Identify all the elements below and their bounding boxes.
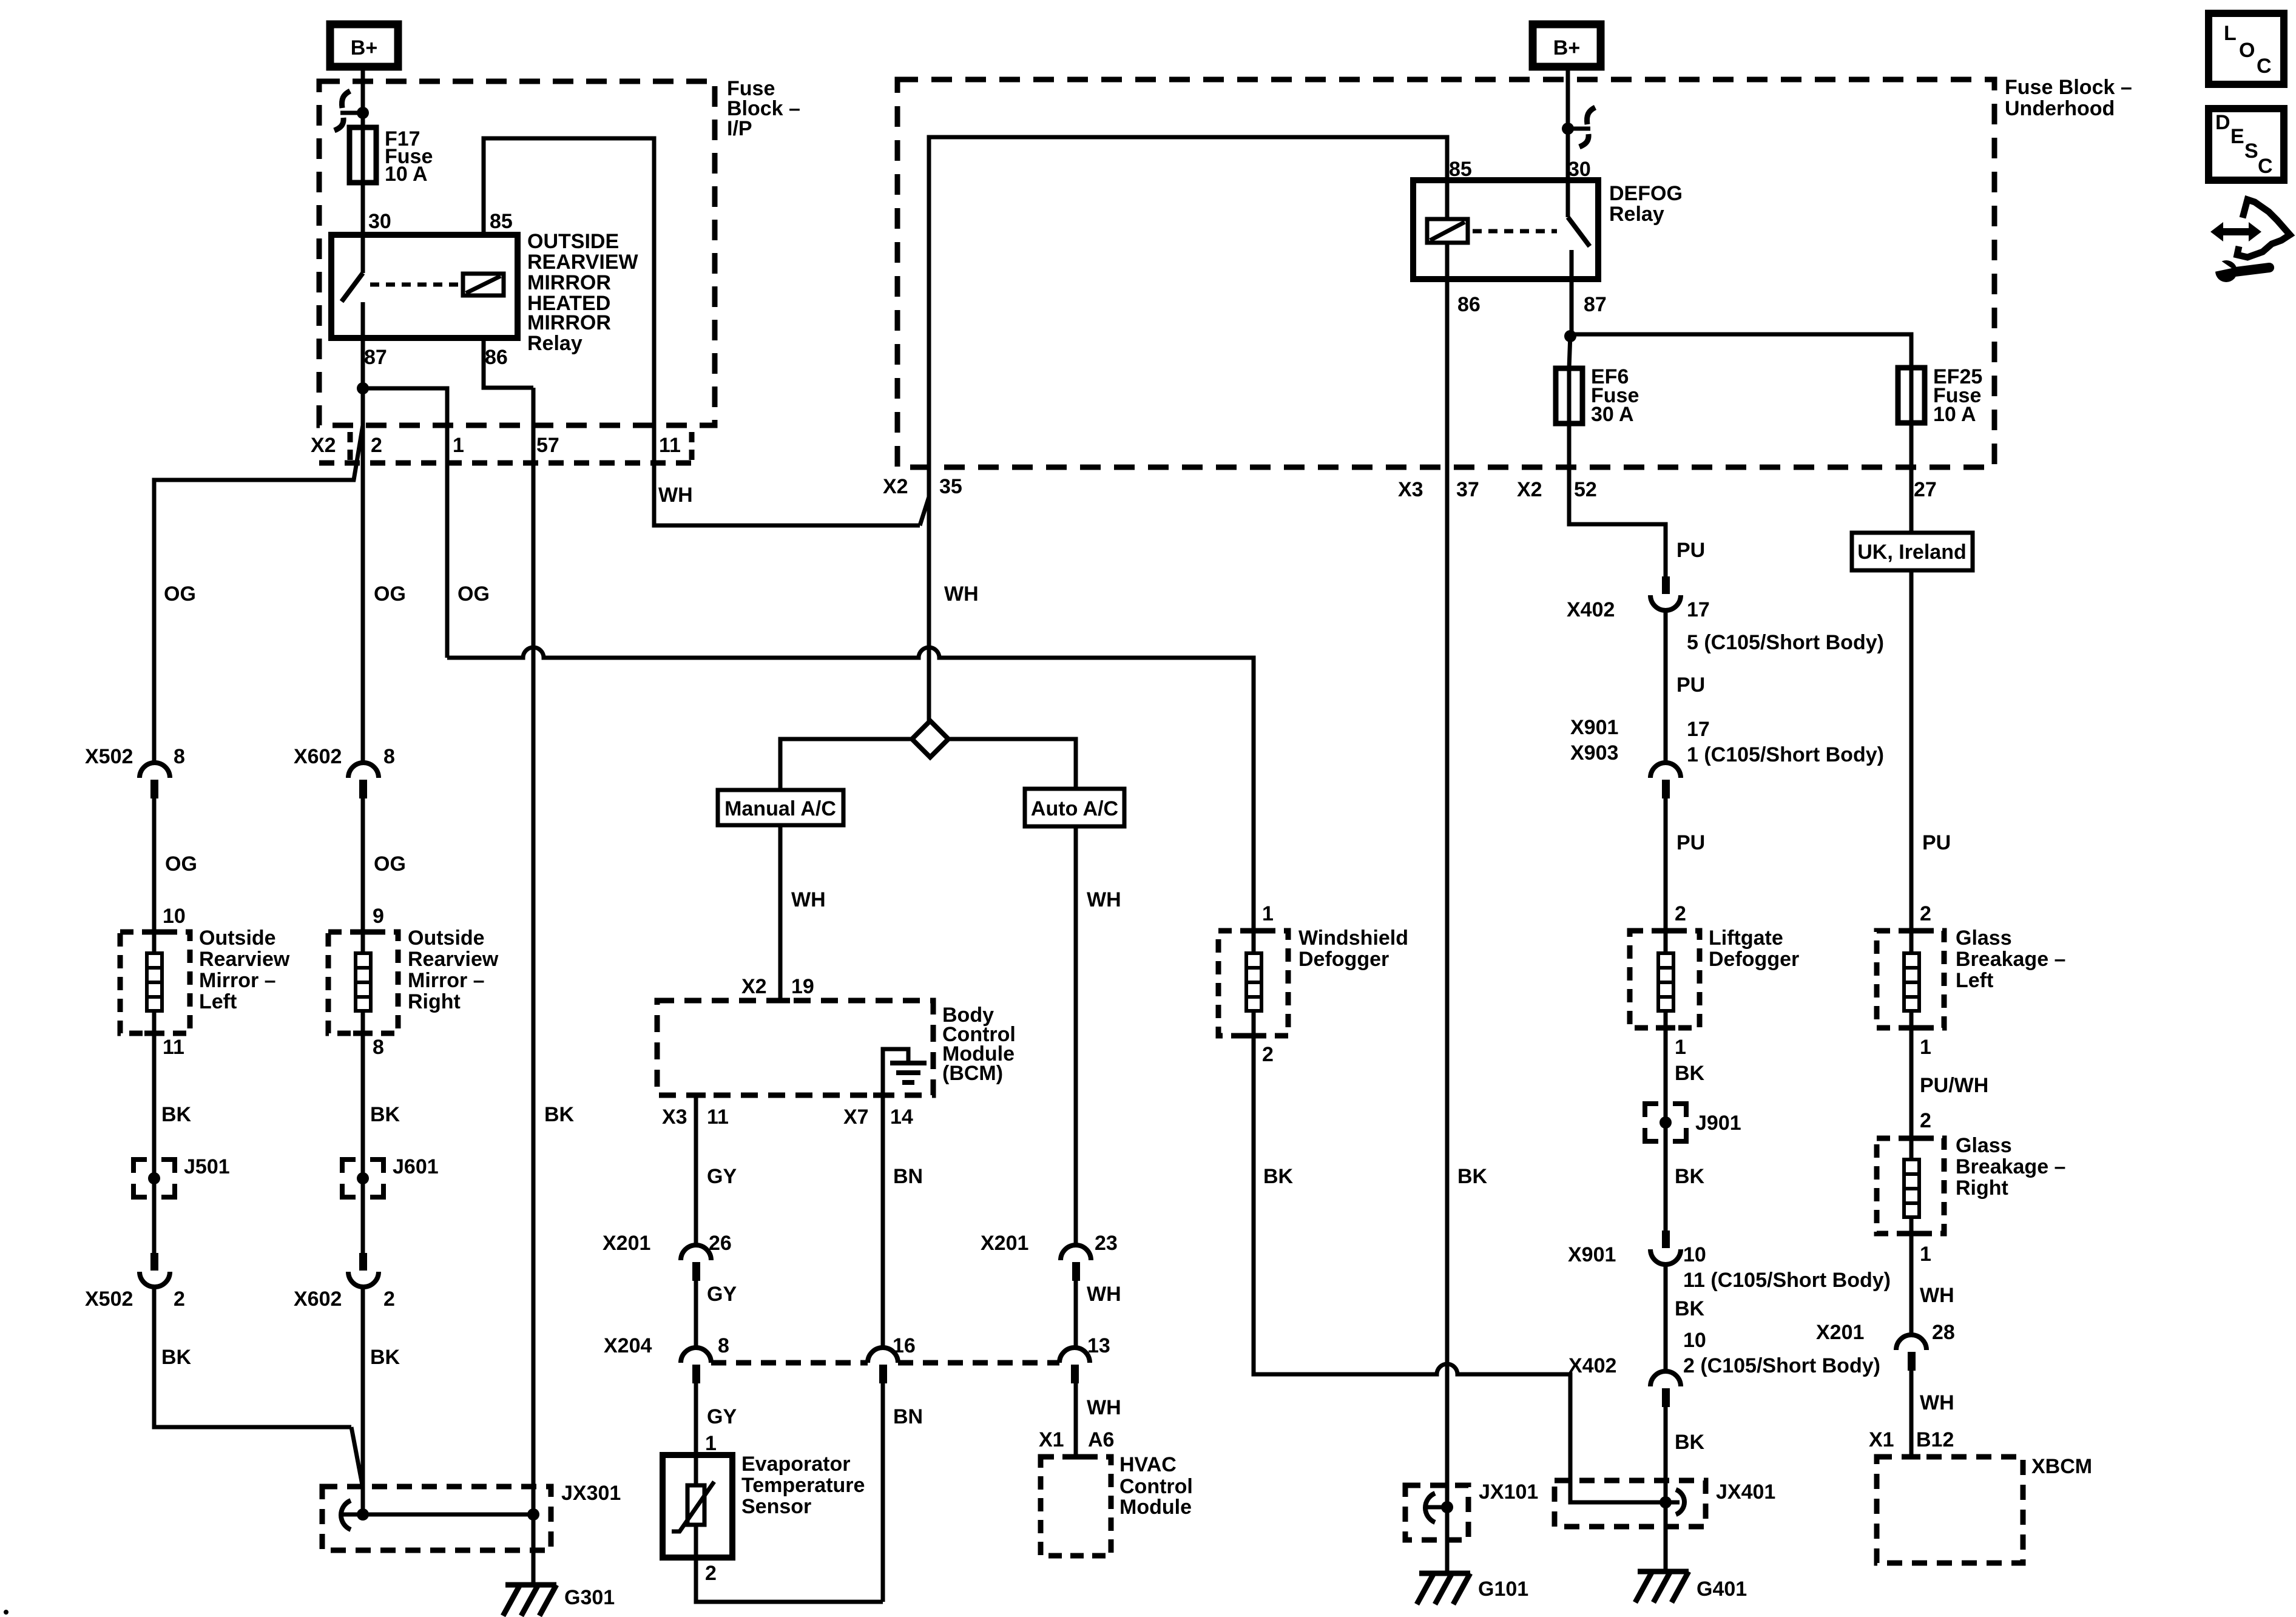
labels X3 37 underhood bbox=[1398, 478, 1479, 501]
svg-text:X402: X402 bbox=[1567, 598, 1615, 621]
svg-text:2: 2 bbox=[1262, 1043, 1274, 1066]
labels X901 X903 bbox=[1570, 716, 1618, 765]
connector X602/2 bbox=[348, 1253, 379, 1287]
svg-text:Mirror –: Mirror – bbox=[199, 969, 276, 992]
svg-text:PU: PU bbox=[1676, 673, 1705, 697]
wire mirror left to X502/2 bbox=[152, 1033, 157, 1253]
JX101 terminal hook bbox=[1425, 1493, 1447, 1522]
connector 16 bbox=[868, 1348, 898, 1383]
svg-text:Control: Control bbox=[1119, 1475, 1193, 1498]
evaporator temperature sensor box bbox=[663, 1455, 732, 1558]
svg-text:2: 2 bbox=[705, 1562, 717, 1585]
fuse EF6 bbox=[1556, 368, 1582, 424]
UK Ireland box bbox=[1852, 533, 1973, 570]
svg-text:Rearview: Rearview bbox=[408, 948, 499, 971]
svg-text:35: 35 bbox=[939, 475, 962, 498]
svg-text:BK: BK bbox=[370, 1346, 400, 1369]
wire defog pin86 column down to JX101 bbox=[1445, 279, 1450, 1507]
svg-text:Left: Left bbox=[1956, 969, 1993, 992]
X201 pass-through dashed row bbox=[711, 1360, 1059, 1366]
wire WH X2/35 column down to diamond bbox=[927, 469, 931, 721]
wire OG pin1 across to windshield defogger with hops bbox=[447, 647, 1254, 931]
connector X204/8 bbox=[681, 1348, 711, 1383]
wire GY to X204/8 bbox=[694, 1281, 698, 1348]
svg-text:X2: X2 bbox=[741, 975, 767, 998]
svg-text:10: 10 bbox=[1683, 1329, 1706, 1352]
junction dot JX101 bbox=[1441, 1501, 1453, 1513]
svg-text:17: 17 bbox=[1687, 598, 1710, 621]
svg-text:X1: X1 bbox=[1039, 1428, 1064, 1451]
labels X1 A6 bbox=[1039, 1428, 1114, 1451]
svg-text:8: 8 bbox=[718, 1334, 729, 1357]
wire WH to 13 bbox=[1074, 1281, 1078, 1348]
glass breakage right element bbox=[1904, 1138, 1919, 1234]
svg-text:OG: OG bbox=[164, 582, 196, 606]
wire slant joining X2/35 column bbox=[920, 497, 929, 525]
svg-text:BK: BK bbox=[161, 1103, 192, 1126]
relay U1 OUTSIDE REARVIEW MIRROR HEATED MIRROR box bbox=[331, 235, 518, 338]
junction dot defog 87 bbox=[1564, 330, 1576, 342]
connector X901/X903 bbox=[1650, 763, 1681, 798]
svg-text:14: 14 bbox=[890, 1106, 913, 1129]
svg-text:Manual A/C: Manual A/C bbox=[724, 797, 836, 820]
svg-text:L: L bbox=[2224, 22, 2237, 45]
svg-text:X502: X502 bbox=[85, 745, 133, 768]
splice J601 bbox=[342, 1160, 383, 1197]
component box entry ticks bbox=[144, 931, 1921, 1234]
svg-text:G301: G301 bbox=[564, 1586, 615, 1609]
labels X2 35 underhood bbox=[883, 475, 962, 498]
svg-text:X2: X2 bbox=[311, 434, 336, 457]
splice J901 bbox=[1645, 1104, 1686, 1141]
label Outside Rearview Mirror Right bbox=[408, 927, 499, 1013]
svg-text:Mirror –: Mirror – bbox=[408, 969, 485, 992]
wire EF6 to jog right bbox=[1569, 424, 1666, 576]
svg-text:DEFOG: DEFOG bbox=[1609, 182, 1683, 205]
wire slant pin2 to left mirror column bbox=[154, 425, 363, 763]
svg-text:MIRROR: MIRROR bbox=[527, 311, 611, 334]
labels 17 1 C105 bbox=[1687, 718, 1884, 766]
wire relay pin86 jog to pin 57 bbox=[484, 338, 533, 388]
page artifact dot bbox=[4, 1610, 8, 1615]
svg-text:23: 23 bbox=[1095, 1232, 1118, 1255]
svg-text:Outside: Outside bbox=[199, 927, 276, 950]
svg-text:G101: G101 bbox=[1478, 1578, 1528, 1601]
defog relay coil bbox=[1427, 180, 1468, 279]
label Fuse Block - Underhood bbox=[2005, 76, 2132, 120]
svg-text:REARVIEW: REARVIEW bbox=[527, 251, 639, 274]
svg-text:27: 27 bbox=[1914, 478, 1937, 501]
labels X901 10 bbox=[1568, 1243, 1706, 1266]
label DEFOG Relay bbox=[1609, 182, 1683, 226]
svg-text:JX401: JX401 bbox=[1716, 1480, 1775, 1504]
svg-text:2: 2 bbox=[1675, 902, 1686, 925]
wire EF25 to UK Ireland bbox=[1909, 423, 1914, 533]
mirror left heater element bbox=[147, 932, 162, 1033]
svg-text:OG: OG bbox=[374, 582, 406, 606]
wire B+ right to DEFOG relay pin 30 bbox=[1566, 65, 1570, 180]
svg-text:UK, Ireland: UK, Ireland bbox=[1857, 541, 1966, 564]
svg-text:2: 2 bbox=[174, 1288, 185, 1311]
connector X901/10 bbox=[1650, 1230, 1681, 1264]
svg-text:X901: X901 bbox=[1570, 716, 1618, 739]
svg-text:8: 8 bbox=[373, 1036, 384, 1059]
svg-text:X602: X602 bbox=[294, 1288, 342, 1311]
svg-text:1: 1 bbox=[1920, 1243, 1931, 1266]
labels X201 23 bbox=[981, 1232, 1118, 1255]
svg-text:Outside: Outside bbox=[408, 927, 485, 950]
svg-text:Right: Right bbox=[408, 990, 461, 1013]
svg-text:Temperature: Temperature bbox=[741, 1474, 865, 1497]
svg-text:OG: OG bbox=[165, 852, 197, 876]
wire relay pin85 up-over to WH net bbox=[484, 138, 920, 525]
label F17 Fuse 10 A bbox=[385, 127, 433, 186]
svg-text:X7: X7 bbox=[843, 1106, 869, 1129]
X2 connector row I/P dashed bbox=[319, 432, 693, 463]
svg-text:Breakage –: Breakage – bbox=[1956, 948, 2065, 971]
label EF25 Fuse 10 A bbox=[1933, 365, 1982, 426]
svg-text:OUTSIDE: OUTSIDE bbox=[527, 230, 619, 253]
labels X2 19 BCM bbox=[741, 975, 814, 998]
svg-text:J601: J601 bbox=[393, 1155, 439, 1178]
svg-text:(BCM): (BCM) bbox=[942, 1062, 1003, 1085]
splice diamond bbox=[912, 721, 948, 757]
labels X402 2 C105 bbox=[1568, 1354, 1880, 1377]
svg-text:2: 2 bbox=[1920, 1109, 1931, 1132]
svg-text:10 A: 10 A bbox=[385, 163, 428, 186]
svg-text:87: 87 bbox=[364, 346, 387, 369]
svg-text:WH: WH bbox=[658, 484, 693, 507]
connector X602/8 bbox=[348, 763, 379, 798]
svg-text:OG: OG bbox=[458, 582, 490, 606]
svg-text:X402: X402 bbox=[1568, 1354, 1616, 1377]
svg-text:1: 1 bbox=[1920, 1036, 1931, 1059]
BCM internal ground bbox=[883, 1049, 927, 1095]
DEFOG relay box bbox=[1413, 180, 1598, 279]
fuse F17 bbox=[349, 127, 376, 183]
wire defog 87 to EF25 bbox=[1570, 334, 1911, 368]
svg-text:10: 10 bbox=[1683, 1243, 1706, 1266]
fusible link hook right bbox=[1568, 107, 1595, 147]
relay coil bbox=[463, 274, 504, 295]
label OUTSIDE REARVIEW MIRROR HEATED MIRROR Relay bbox=[527, 230, 639, 355]
svg-text:11: 11 bbox=[659, 434, 681, 457]
svg-text:C: C bbox=[2258, 155, 2273, 178]
wire pin87 to connector pin 1 bbox=[363, 388, 447, 658]
svg-text:Defogger: Defogger bbox=[1709, 948, 1799, 971]
svg-text:X901: X901 bbox=[1568, 1243, 1616, 1266]
svg-text:Module: Module bbox=[1119, 1496, 1192, 1519]
BCM dashed box bbox=[657, 1001, 933, 1095]
svg-text:WH: WH bbox=[1087, 1396, 1121, 1419]
svg-text:B+: B+ bbox=[351, 36, 377, 59]
wire sensor pin2 to BN column bbox=[696, 1558, 883, 1602]
svg-text:87: 87 bbox=[1584, 293, 1607, 316]
svg-text:PU/WH: PU/WH bbox=[1920, 1074, 1988, 1097]
svg-text:19: 19 bbox=[791, 975, 814, 998]
svg-text:Underhood: Underhood bbox=[2005, 97, 2115, 120]
svg-text:26: 26 bbox=[709, 1232, 732, 1255]
liftgate defogger dashed box bbox=[1630, 931, 1700, 1028]
connector X502/2 bbox=[140, 1253, 170, 1287]
labels X502 2 bbox=[85, 1288, 185, 1311]
svg-text:X1: X1 bbox=[1869, 1428, 1894, 1451]
label Glass Breakage Left bbox=[1956, 927, 2065, 992]
svg-text:Glass: Glass bbox=[1956, 927, 2012, 950]
svg-text:Rearview: Rearview bbox=[199, 948, 290, 971]
fuse block underhood dashed box bbox=[897, 79, 1994, 467]
label Windshield Defogger bbox=[1298, 927, 1408, 971]
svg-text:2 (C105/Short Body): 2 (C105/Short Body) bbox=[1683, 1354, 1880, 1377]
svg-text:XBCM: XBCM bbox=[2031, 1455, 2092, 1478]
svg-text:1: 1 bbox=[705, 1432, 717, 1455]
wire PU to X901/X903 bbox=[1664, 610, 1668, 763]
svg-text:D: D bbox=[2215, 111, 2230, 134]
svg-text:2: 2 bbox=[383, 1288, 395, 1311]
wire PU to liftgate defogger bbox=[1664, 798, 1668, 931]
labels X602 2 bbox=[294, 1288, 395, 1311]
svg-text:Defogger: Defogger bbox=[1298, 948, 1389, 971]
svg-text:BK: BK bbox=[161, 1346, 192, 1369]
outside rearview mirror left dashed box bbox=[120, 932, 190, 1033]
svg-text:X2: X2 bbox=[883, 475, 908, 498]
svg-text:WH: WH bbox=[1087, 888, 1121, 911]
svg-text:Right: Right bbox=[1956, 1176, 2008, 1200]
wire windshield defogger BK to JX401 bbox=[1254, 1036, 1664, 1502]
wire diamond to Auto A/C bbox=[948, 739, 1076, 789]
svg-text:37: 37 bbox=[1456, 478, 1479, 501]
glass breakage right dashed box bbox=[1877, 1138, 1944, 1234]
wire JX101 to G101 bbox=[1445, 1507, 1450, 1573]
svg-text:28: 28 bbox=[1932, 1321, 1955, 1344]
svg-text:Evaporator: Evaporator bbox=[741, 1453, 851, 1476]
JX301 terminal hook bbox=[341, 1501, 363, 1530]
svg-text:HVAC: HVAC bbox=[1119, 1453, 1177, 1476]
svg-text:11: 11 bbox=[163, 1036, 184, 1059]
junction dot JX301 left bbox=[357, 1508, 369, 1521]
service icon wrench bbox=[2212, 257, 2269, 282]
wire defog pin85 over to X2/35 bbox=[929, 137, 1447, 469]
svg-text:Liftgate: Liftgate bbox=[1709, 927, 1783, 950]
svg-text:BN: BN bbox=[893, 1165, 923, 1188]
liftgate defogger element bbox=[1658, 931, 1673, 1028]
JX401 terminal hook bbox=[1664, 1490, 1684, 1514]
wire JX401 to G401 bbox=[1664, 1502, 1668, 1571]
svg-text:GY: GY bbox=[707, 1165, 737, 1188]
label Evaporator Temperature Sensor bbox=[741, 1453, 865, 1518]
junction dot below B+ left bbox=[357, 107, 369, 119]
splice pack JX101 dashed box bbox=[1405, 1485, 1468, 1540]
svg-text:WH: WH bbox=[791, 888, 826, 911]
svg-text:B+: B+ bbox=[1553, 36, 1580, 59]
svg-text:I/P: I/P bbox=[727, 117, 752, 140]
wire liftgate BK to J901 bbox=[1664, 1028, 1668, 1230]
svg-text:B12: B12 bbox=[1916, 1428, 1954, 1451]
ground G401 bbox=[1635, 1571, 1689, 1602]
svg-text:16: 16 bbox=[893, 1334, 916, 1357]
svg-text:E: E bbox=[2230, 125, 2244, 148]
wire GY BCM X3/11 down bbox=[694, 1095, 698, 1246]
label HVAC Control Module bbox=[1119, 1453, 1193, 1519]
labels X402 17 bbox=[1567, 598, 1710, 621]
svg-text:BK: BK bbox=[1675, 1062, 1705, 1085]
svg-text:2: 2 bbox=[1920, 902, 1931, 925]
svg-text:J501: J501 bbox=[184, 1155, 230, 1178]
wire 57 BK column down to JX301 bbox=[532, 388, 536, 1514]
wire BN BCM X7/14 down bbox=[881, 1095, 885, 1348]
svg-text:9: 9 bbox=[373, 905, 384, 928]
wire Auto A/C to X201/23 bbox=[1074, 826, 1078, 1246]
wire BK X502 bottom bbox=[154, 1286, 351, 1427]
labels X3 11 bbox=[662, 1106, 729, 1129]
svg-text:85: 85 bbox=[490, 210, 513, 233]
svg-text:PU: PU bbox=[1676, 539, 1705, 562]
glass breakage left element bbox=[1904, 931, 1919, 1028]
svg-text:OG: OG bbox=[374, 852, 406, 876]
svg-text:BK: BK bbox=[1263, 1165, 1294, 1188]
Auto A/C box bbox=[1025, 789, 1124, 826]
svg-text:Glass: Glass bbox=[1956, 1134, 2012, 1157]
service icon arrow bbox=[2210, 222, 2261, 241]
label Fuse Block - I/P bbox=[727, 77, 800, 140]
label Body Control Module (BCM) bbox=[942, 1004, 1016, 1085]
wire WH glass right to X201/28 bbox=[1909, 1234, 1914, 1335]
svg-text:1: 1 bbox=[1675, 1036, 1686, 1059]
labels X2 52 underhood bbox=[1517, 478, 1597, 501]
svg-text:Relay: Relay bbox=[1609, 203, 1664, 226]
label Outside Rearview Mirror Left bbox=[199, 927, 290, 1013]
svg-text:10: 10 bbox=[163, 905, 186, 928]
svg-text:8: 8 bbox=[174, 745, 185, 768]
svg-text:A6: A6 bbox=[1088, 1428, 1114, 1451]
svg-text:G401: G401 bbox=[1697, 1578, 1747, 1601]
svg-text:X204: X204 bbox=[604, 1334, 652, 1357]
label Glass Breakage Right bbox=[1956, 1134, 2065, 1200]
junction dot JX401 bbox=[1660, 1496, 1672, 1508]
wire F17 to relay pin 30 bbox=[361, 183, 365, 235]
svg-text:Sensor: Sensor bbox=[741, 1495, 811, 1518]
fuse block I/P dashed box bbox=[319, 81, 715, 425]
labels X1 B12 bbox=[1869, 1428, 1954, 1451]
wire OG X502 to mirror left bbox=[152, 798, 157, 932]
svg-text:PU: PU bbox=[1922, 831, 1951, 854]
defog relay actuation dashed link bbox=[1473, 229, 1557, 234]
ground G101 bbox=[1417, 1573, 1470, 1604]
svg-text:1 (C105/Short Body): 1 (C105/Short Body) bbox=[1687, 743, 1884, 766]
wire into EF6 bbox=[1569, 334, 1570, 368]
svg-text:17: 17 bbox=[1687, 718, 1710, 741]
wire JX301 to G301 bbox=[532, 1514, 536, 1585]
connector X201/23 bbox=[1061, 1245, 1091, 1281]
svg-text:86: 86 bbox=[485, 346, 508, 369]
LOC legend box bbox=[2209, 13, 2284, 84]
wire B+ to fuse F17 bbox=[361, 67, 365, 127]
svg-text:WH: WH bbox=[1920, 1284, 1954, 1307]
outside rearview mirror right dashed box bbox=[328, 932, 398, 1033]
connector X502/8 bbox=[140, 763, 170, 798]
svg-text:52: 52 bbox=[1574, 478, 1597, 501]
svg-text:X602: X602 bbox=[294, 745, 342, 768]
svg-text:X201: X201 bbox=[603, 1232, 650, 1255]
relay actuation dashed link bbox=[370, 283, 458, 287]
labels X502 8 bbox=[85, 745, 185, 768]
svg-text:GY: GY bbox=[707, 1405, 737, 1428]
wire BK X602 to JX301 bbox=[361, 1286, 365, 1514]
svg-text:BK: BK bbox=[544, 1103, 575, 1126]
B+ terminal left bbox=[330, 24, 398, 67]
svg-text:10 A: 10 A bbox=[1933, 403, 1976, 426]
labels X204 8 bbox=[604, 1334, 729, 1357]
wire slant merge into X602 column bbox=[351, 1427, 363, 1488]
svg-text:8: 8 bbox=[383, 745, 395, 768]
svg-text:WH: WH bbox=[944, 582, 979, 606]
labels X602 8 bbox=[294, 745, 395, 768]
label Liftgate Defogger bbox=[1709, 927, 1799, 971]
svg-text:86: 86 bbox=[1457, 293, 1481, 316]
svg-text:13: 13 bbox=[1087, 1334, 1110, 1357]
wire JX301 bus bbox=[363, 1513, 533, 1517]
connector 13 bbox=[1059, 1348, 1090, 1383]
svg-text:O: O bbox=[2239, 39, 2255, 62]
svg-text:Relay: Relay bbox=[527, 332, 582, 355]
junction dot JX301 right bbox=[527, 1508, 539, 1521]
svg-text:WH: WH bbox=[1920, 1391, 1954, 1414]
svg-text:30 A: 30 A bbox=[1591, 403, 1634, 426]
svg-text:Breakage –: Breakage – bbox=[1956, 1155, 2065, 1178]
labels X201 28 bbox=[1816, 1321, 1955, 1344]
wire diamond to Manual A/C bbox=[780, 739, 912, 790]
svg-text:X201: X201 bbox=[981, 1232, 1028, 1255]
wire PU EF25 to glass breakage left bbox=[1909, 570, 1914, 931]
svg-text:X3: X3 bbox=[1398, 478, 1423, 501]
HVAC control module dashed box bbox=[1041, 1457, 1111, 1556]
splice pack JX301 dashed box bbox=[322, 1487, 551, 1550]
mirror right heater element bbox=[356, 932, 371, 1033]
wire OG X602 to mirror right bbox=[361, 798, 365, 932]
wire pin87 down through pin 2 bbox=[361, 338, 365, 763]
labels X2 2 1 57 11 bbox=[311, 434, 681, 457]
labels X201 26 bbox=[603, 1232, 732, 1255]
wire WH to XBCM X1/B12 bbox=[1909, 1371, 1914, 1457]
svg-text:Fuse Block –: Fuse Block – bbox=[2005, 76, 2132, 99]
connector X402/17 bbox=[1650, 576, 1681, 610]
svg-text:BK: BK bbox=[370, 1103, 400, 1126]
junction dot relay pin 87 bbox=[357, 382, 369, 394]
svg-text:X502: X502 bbox=[85, 1288, 133, 1311]
windshield defogger element bbox=[1246, 931, 1261, 1036]
svg-text:BN: BN bbox=[893, 1405, 923, 1428]
connector X201/28 bbox=[1896, 1335, 1926, 1371]
splice pack JX401 dashed box bbox=[1555, 1480, 1706, 1527]
svg-text:Left: Left bbox=[199, 990, 237, 1013]
svg-text:JX301: JX301 bbox=[561, 1482, 621, 1505]
svg-text:30: 30 bbox=[368, 210, 391, 233]
windshield defogger dashed box bbox=[1218, 931, 1288, 1036]
svg-text:BK: BK bbox=[1457, 1165, 1488, 1188]
fuse EF25 bbox=[1898, 368, 1925, 423]
wire PU/WH glass left to right bbox=[1909, 1028, 1914, 1138]
svg-text:BK: BK bbox=[1675, 1431, 1705, 1454]
glass breakage left dashed box bbox=[1877, 931, 1944, 1028]
connector X201/26 bbox=[681, 1245, 711, 1281]
thermistor symbol bbox=[672, 1455, 714, 1558]
svg-text:X201: X201 bbox=[1816, 1321, 1864, 1344]
svg-text:Windshield: Windshield bbox=[1298, 927, 1408, 950]
svg-text:PU: PU bbox=[1676, 831, 1705, 854]
wire GY to evaporator sensor bbox=[694, 1383, 698, 1455]
svg-text:BK: BK bbox=[1675, 1297, 1705, 1320]
wire BK to JX401 bbox=[1664, 1407, 1668, 1502]
